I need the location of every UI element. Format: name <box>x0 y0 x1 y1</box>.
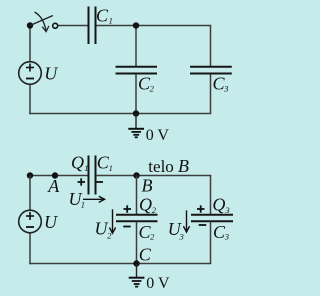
wire: C3 bottom plate down to bottom wire <box>210 74 212 114</box>
svg-text:1: 1 <box>81 200 85 210</box>
plus sign above C2 top plate <box>124 208 132 210</box>
node: junction dot bottom wire (node C) <box>133 260 139 266</box>
capacitor C2 (bottom circuit) plates <box>116 214 158 216</box>
svg-text:U: U <box>44 212 58 232</box>
capacitor C1 (bottom circuit) plates <box>88 156 90 195</box>
svg-text:1: 1 <box>109 163 113 173</box>
node dot left (switch closed) <box>27 172 33 178</box>
arrow: U3 voltage direction (down) <box>186 210 188 231</box>
wire: B down to C2 top plate <box>136 176 138 216</box>
capacitor C3 (top circuit) plates <box>190 66 232 68</box>
voltage source U (top circuit) <box>19 62 42 85</box>
wire: top-left segment from switch pivot down to source top <box>29 26 31 62</box>
node: junction dot bottom wire <box>133 110 139 116</box>
svg-text:Q: Q <box>212 195 225 215</box>
svg-text:A: A <box>47 176 60 196</box>
svg-text:3: 3 <box>223 84 228 94</box>
wire: junction down to C2 top plate <box>135 26 137 68</box>
minus sign below C2 bottom plate <box>123 226 131 228</box>
plus sign at C1 left plate <box>78 181 86 183</box>
wire: source bottom to bottom-left corner <box>29 85 31 115</box>
wire: C2 bottom plate down to bottom wire <box>135 74 137 114</box>
svg-text:2: 2 <box>150 84 155 94</box>
svg-text:0 V: 0 V <box>146 275 170 292</box>
svg-text:B: B <box>142 176 153 196</box>
svg-text:C: C <box>96 5 109 25</box>
wire: bottom wire of bottom circuit <box>29 263 211 265</box>
wire: C3 bottom plate down to bottom wire <box>210 221 212 263</box>
svg-text:3: 3 <box>224 232 229 242</box>
wire: C1 right plate to right corner (top wire) <box>96 175 211 177</box>
svg-text:2: 2 <box>150 232 155 242</box>
wire: right corner down to C3 top plate <box>210 26 212 68</box>
wire: switch terminal to C1 left plate <box>58 25 89 27</box>
capacitor C1 (top circuit) plates <box>88 7 90 45</box>
wire: right corner down to C3 top plate <box>210 176 212 216</box>
wire: source bottom to bottom-left corner <box>29 233 31 264</box>
svg-text:2: 2 <box>152 205 157 215</box>
svg-text:U: U <box>44 64 58 84</box>
minus sign below C3 bottom plate <box>199 224 207 226</box>
plus sign above C3 top plate <box>197 208 205 210</box>
svg-text:3: 3 <box>179 231 184 241</box>
ground (top circuit) <box>135 114 137 129</box>
switch blade <box>30 16 53 26</box>
capacitor C3 (bottom circuit) plates <box>191 214 233 216</box>
wire: C1 right plate to right corner <box>96 25 211 27</box>
voltage source U (bottom circuit) <box>19 210 42 233</box>
svg-text:C: C <box>139 245 152 265</box>
wire: left side down to source <box>29 176 31 211</box>
wire: top wire left segment with closed switch <box>30 175 88 177</box>
ground (bottom circuit) <box>136 264 138 278</box>
arrow: U1 voltage direction (right) <box>83 198 104 200</box>
arrow: U2 voltage direction (down) <box>112 209 114 233</box>
node dot right of switch <box>52 172 58 178</box>
capacitor C2 (top circuit) plates <box>116 66 158 68</box>
switch S (open) pivot dot <box>27 22 33 28</box>
svg-text:3: 3 <box>224 205 229 215</box>
svg-text:Q: Q <box>139 195 152 215</box>
wire: bottom wire of top circuit <box>29 113 211 115</box>
svg-text:Q: Q <box>71 153 84 173</box>
minus sign at C1 right plate <box>96 181 104 183</box>
switch open terminal circle <box>53 23 58 28</box>
svg-text:telo B: telo B <box>148 156 189 176</box>
svg-text:0 V: 0 V <box>146 127 170 144</box>
svg-text:1: 1 <box>109 15 113 25</box>
node: junction dot B <box>133 172 139 178</box>
svg-text:1: 1 <box>84 163 88 173</box>
wire: C2 bottom plate down to bottom wire <box>136 221 138 263</box>
node: junction dot top wire <box>133 22 139 28</box>
switch motion arrow <box>35 12 47 31</box>
